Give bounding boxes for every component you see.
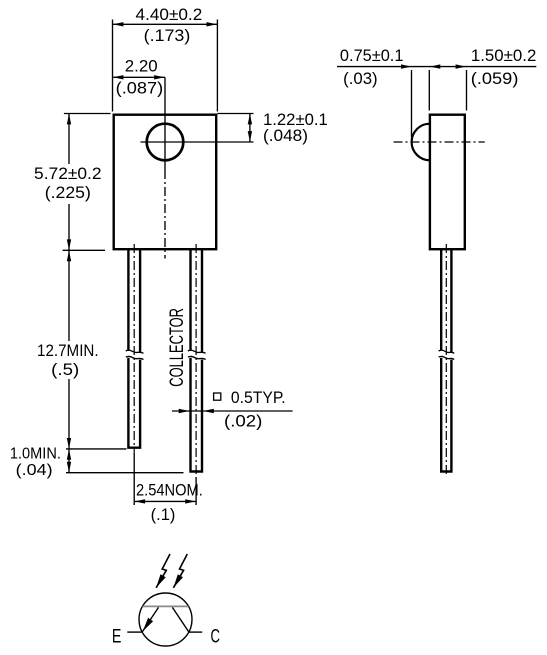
collector lead (front, right) upper segment <box>191 250 203 353</box>
svg-text:0.5TYP.: 0.5TYP. <box>231 389 286 407</box>
emitter external lead <box>127 631 143 633</box>
emitter lead (front, left) upper segment <box>128 250 140 353</box>
side dims extension lines <box>412 70 467 137</box>
COLLECTOR label (rotated) <box>166 308 188 387</box>
dim text (.04) <box>16 462 53 479</box>
collector lead lower segment <box>191 358 203 472</box>
dim text 5.72±0.2 <box>34 165 102 183</box>
dim text (.173) <box>144 27 191 45</box>
phototransistor base bar <box>143 605 189 607</box>
svg-text:1.50±0.2: 1.50±0.2 <box>471 47 537 65</box>
dim 5.72 extension lines <box>63 114 111 251</box>
dim text (.059) <box>471 70 519 88</box>
svg-text:(.1): (.1) <box>151 506 176 524</box>
dim 2.54 extension lines <box>134 453 196 505</box>
svg-text:(.04): (.04) <box>16 462 53 479</box>
lens hole circle <box>147 124 184 161</box>
emitter lead lower segment <box>128 358 140 448</box>
label E <box>112 625 122 647</box>
collector lead break lines <box>188 350 206 359</box>
label C <box>211 625 221 647</box>
svg-text:(.225): (.225) <box>45 184 91 202</box>
body vertical centerline (dash-dot) <box>164 170 166 259</box>
dim text 1.50±0.2 <box>471 47 537 65</box>
dim 1.22 extension line <box>217 113 253 115</box>
svg-text:(.5): (.5) <box>51 361 79 379</box>
collector line <box>172 607 189 632</box>
collector lead centerline <box>195 244 197 477</box>
side view lens dome <box>412 124 430 161</box>
svg-text:2.54NOM.: 2.54NOM. <box>136 481 203 499</box>
side view horizontal centerline <box>394 141 485 143</box>
dim 1.22 dimension line with arrows <box>248 114 252 143</box>
dim text (.087) <box>116 80 164 98</box>
dim text 12.7MIN. <box>37 342 99 360</box>
svg-text:4.40±0.2: 4.40±0.2 <box>136 6 203 24</box>
svg-text:(.173): (.173) <box>144 27 191 45</box>
dim text (.5) <box>51 361 79 379</box>
dim text 2.20 <box>125 58 158 76</box>
light arrow 2 <box>173 554 187 588</box>
svg-text:COLLECTOR: COLLECTOR <box>166 308 188 387</box>
side view lead centerline <box>445 244 447 477</box>
emitter lead centerline <box>133 244 135 453</box>
svg-text:(.03): (.03) <box>343 70 378 88</box>
dim text 2.54NOM. <box>136 481 203 499</box>
svg-text:(.087): (.087) <box>116 80 164 98</box>
svg-text:1.0MIN.: 1.0MIN. <box>10 446 61 463</box>
dim 12.7 dimension line with arrows <box>67 250 71 449</box>
dim 5.72 dimension line with arrows <box>67 114 71 251</box>
front view body outline <box>114 115 217 250</box>
svg-text:0.75±0.1: 0.75±0.1 <box>340 47 404 65</box>
light arrow 1 <box>156 554 170 588</box>
side view body outline <box>430 115 465 250</box>
hole vertical centerline (solid upper part) <box>164 77 166 170</box>
dim 1.0 extension lines <box>66 449 184 473</box>
square symbol for 0.5TYP <box>214 393 221 400</box>
hole horizontal centerline <box>141 141 254 143</box>
dim text 1.0MIN. <box>10 446 61 463</box>
emitter lead break lines <box>126 350 144 359</box>
svg-text:C: C <box>211 625 221 647</box>
dim 4.40 dimension line with arrows <box>113 22 218 26</box>
dim 2.54 dimension line with arrows <box>134 499 196 503</box>
dim text 0.75±0.1 <box>340 47 404 65</box>
svg-text:E: E <box>112 625 122 647</box>
lead width leader line with arrows <box>172 409 293 413</box>
dim text 4.40±0.2 <box>136 6 203 24</box>
dim text (.1) <box>151 506 176 524</box>
dim 2.20 dimension line with arrows <box>113 75 166 79</box>
phototransistor symbol circle <box>139 593 192 646</box>
svg-text:2.20: 2.20 <box>125 58 158 76</box>
side dims dimension line with arrows <box>337 64 536 68</box>
emitter line with arrow <box>142 607 158 632</box>
dim text 0.5TYP. <box>231 389 286 407</box>
dim text (.225) <box>45 184 91 202</box>
dim 4.40 extension lines <box>113 20 218 112</box>
collector external lead <box>189 631 203 633</box>
side view lead break lines <box>439 350 455 359</box>
side view lead upper segment <box>441 250 451 353</box>
dim text (.048) <box>263 127 308 145</box>
dim text (.03) <box>343 70 378 88</box>
svg-text:12.7MIN.: 12.7MIN. <box>37 342 99 360</box>
dim 1.0 dimension line with arrows <box>67 449 71 473</box>
svg-text:(.059): (.059) <box>471 70 519 88</box>
svg-text:(.048): (.048) <box>263 127 308 145</box>
svg-text:(.02): (.02) <box>224 412 262 430</box>
dim text 1.22±0.1 <box>263 111 328 129</box>
dim text (.02) <box>224 412 262 430</box>
svg-text:5.72±0.2: 5.72±0.2 <box>34 165 102 183</box>
side view lead lower segment <box>441 358 451 472</box>
